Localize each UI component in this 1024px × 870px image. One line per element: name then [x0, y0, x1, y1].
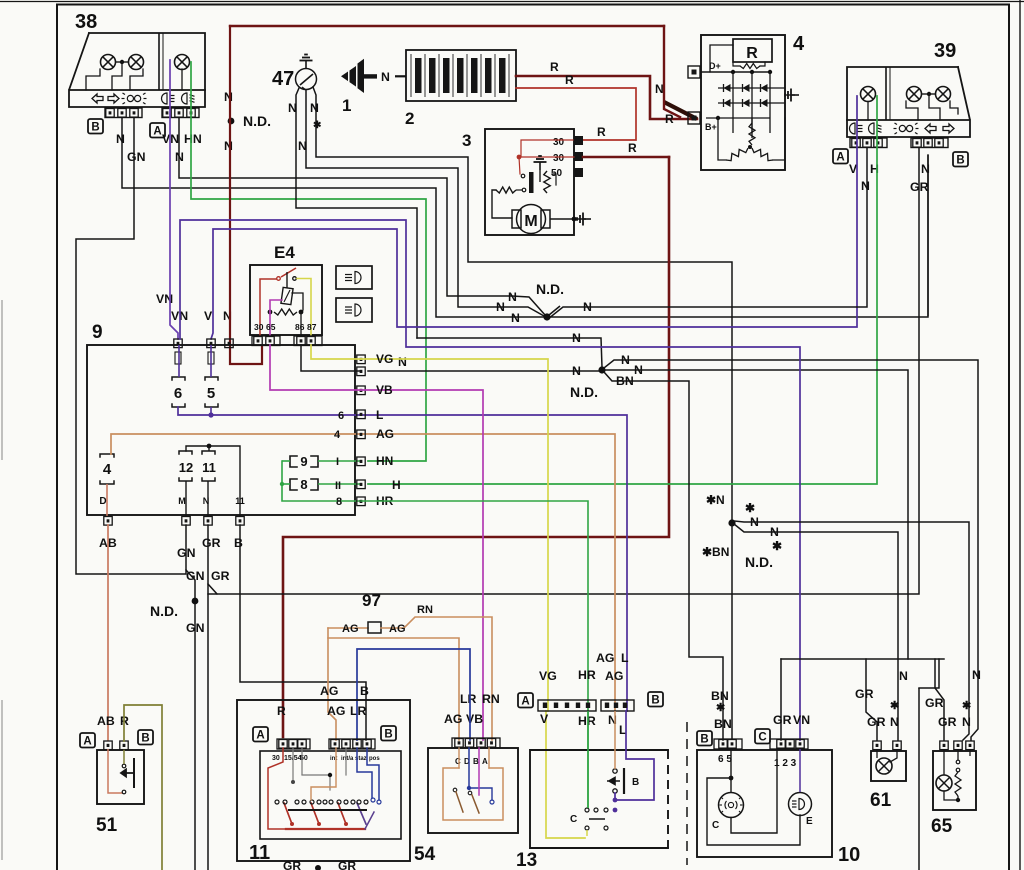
47 N* wire to N.D.3 — [313, 87, 732, 519]
svg-text:2: 2 — [405, 109, 414, 128]
main R feed down to ignition switch — [283, 157, 669, 737]
svg-text:B: B — [956, 155, 964, 167]
svg-text:A: A — [256, 730, 264, 742]
svg-text:B: B — [473, 757, 479, 766]
fuse 5 — [205, 377, 218, 380]
battery 2 — [406, 50, 516, 101]
svg-text:12: 12 — [179, 460, 193, 475]
svg-text:N: N — [496, 300, 505, 314]
wire VN purple from 38-A to fusebox pad — [170, 60, 178, 339]
N wire fusebox to N.D.2 — [368, 370, 599, 372]
svg-text:R: R — [628, 141, 637, 155]
svg-text:8: 8 — [336, 496, 342, 508]
svg-text:GR: GR — [283, 859, 301, 870]
bottom pads of box 9 — [104, 517, 112, 526]
L wire to switch 13 — [361, 415, 627, 711]
green brackets 9 and 8 — [290, 456, 297, 467]
connector A of 38 — [150, 123, 165, 138]
svg-text:E: E — [806, 816, 813, 827]
svg-text:N.D.: N.D. — [150, 603, 178, 619]
svg-text:N: N — [511, 311, 520, 325]
GR wire down — [207, 525, 209, 870]
11 internals — [268, 748, 286, 829]
component 39 front-right light cluster — [847, 67, 958, 120]
svg-text:N: N — [655, 82, 664, 96]
svg-text:LR: LR — [460, 692, 477, 706]
svg-text:61: 61 — [870, 790, 892, 811]
38 bulb wire — [86, 69, 100, 90]
svg-text:V: V — [540, 712, 549, 726]
low beam tell-tale — [336, 298, 372, 322]
R wire battery to starter 30 — [516, 88, 636, 140]
svg-text:N: N — [298, 139, 307, 153]
svg-text:8: 8 — [300, 477, 307, 492]
horn N wire to battery — [395, 75, 406, 77]
svg-text:11: 11 — [202, 460, 216, 475]
GN ground wire — [186, 525, 195, 870]
13 purple internal — [615, 711, 654, 800]
svg-text:VB: VB — [466, 712, 483, 726]
HR wire to switch 13 — [361, 501, 588, 808]
starter motor 3 — [485, 129, 574, 235]
svg-text:30: 30 — [272, 755, 280, 762]
svg-text:3: 3 — [462, 131, 471, 150]
starter motor M — [517, 205, 546, 234]
svg-text:HN: HN — [184, 132, 202, 146]
wire GN from 38-B down to ground bus — [76, 118, 186, 574]
svg-text:L: L — [621, 651, 629, 665]
VB magenta from E4 65 — [270, 345, 361, 390]
E4 magenta 65 wire — [270, 300, 282, 312]
svg-text:13: 13 — [516, 850, 537, 870]
13 switch C — [585, 808, 589, 812]
switch 54 — [428, 748, 518, 833]
L/VN violet from fuse6 to cluster 10 — [180, 220, 800, 740]
BN wire N.D.2 to cluster 10 — [604, 372, 723, 740]
svg-text:N: N — [583, 300, 592, 314]
svg-text:10: 10 — [838, 844, 860, 866]
component 38 front-left light cluster — [89, 33, 205, 90]
svg-text:AG: AG — [444, 712, 462, 726]
svg-text:AG: AG — [376, 427, 394, 441]
node N.D.2 — [598, 366, 605, 373]
N wire to 61 — [734, 524, 898, 740]
fuse box 9 — [87, 345, 355, 515]
47 centre N wire to N.D.1 — [306, 90, 544, 316]
alternator ground — [785, 89, 799, 102]
svg-text:B: B — [651, 695, 659, 707]
svg-text:11: 11 — [249, 842, 270, 864]
svg-text:A: A — [83, 736, 91, 748]
svg-text:N: N — [203, 496, 210, 506]
svg-text:N: N — [861, 179, 870, 193]
svg-text:✱: ✱ — [890, 700, 899, 712]
svg-text:D: D — [99, 496, 106, 507]
svg-text:pos: pos — [369, 756, 380, 762]
47 left N wire — [296, 88, 417, 338]
connector B of 38 — [88, 119, 103, 134]
connector A of 39 — [833, 149, 848, 164]
starter internal red links — [521, 140, 574, 157]
svg-text:N: N — [572, 364, 581, 378]
38 icon strip: turn arrows — [92, 94, 103, 103]
svg-text:N: N — [770, 525, 779, 539]
VG wire to switch 13 — [361, 359, 548, 711]
solenoid plate and spring — [529, 172, 534, 193]
page frame top edge — [0, 1, 1024, 3]
tail lamp 65 — [933, 751, 976, 810]
switch 51 — [97, 750, 144, 804]
svg-text:11: 11 — [235, 496, 245, 506]
svg-text:87: 87 — [307, 322, 317, 332]
39 icon: side marker )00( — [894, 123, 919, 134]
svg-text:A: A — [521, 696, 529, 708]
V wire 39 to fusebox — [211, 96, 857, 339]
svg-text:30: 30 — [254, 322, 264, 332]
svg-text:6: 6 — [338, 410, 344, 422]
svg-text:A: A — [153, 126, 161, 138]
wire N from 38-B to 39-B (y317 bus through N.D.1) — [122, 118, 928, 317]
svg-text:C: C — [712, 820, 719, 831]
svg-text:N: N — [572, 331, 581, 345]
GR bus from 39-B — [208, 148, 919, 594]
svg-text:✱: ✱ — [962, 700, 971, 712]
svg-text:B: B — [632, 777, 639, 788]
wire HN green from 38-A to fusebox HN — [191, 62, 426, 461]
VG inside 13 — [546, 711, 585, 838]
svg-text:N: N — [899, 669, 908, 683]
N wire 39-A to N.D.1 — [548, 148, 867, 319]
51 switch arrow — [133, 758, 135, 788]
svg-text:N: N — [962, 715, 971, 729]
svg-text:B: B — [234, 536, 243, 550]
svg-text:6 5: 6 5 — [718, 754, 732, 765]
svg-text:AG: AG — [389, 623, 406, 635]
svg-text:4: 4 — [334, 429, 341, 441]
svg-text:✱N: ✱N — [706, 493, 725, 507]
svg-text:97: 97 — [362, 591, 381, 610]
connector B of 39 — [953, 152, 968, 167]
svg-text:N: N — [621, 353, 630, 367]
svg-text:R: R — [597, 125, 606, 139]
svg-text:R: R — [277, 704, 286, 718]
relay E4 — [250, 265, 322, 335]
39 icons: headlights — [850, 123, 863, 134]
N wire N.D.2 to lamp 65 — [604, 360, 978, 740]
top pads of box 9 — [174, 339, 182, 348]
svg-text:6: 6 — [174, 385, 182, 402]
svg-text:GR: GR — [338, 859, 356, 870]
node N.D. on dark red feed — [228, 118, 235, 125]
N feed into N.D.2 — [417, 338, 602, 367]
svg-text:B+: B+ — [705, 122, 717, 132]
dark red top feed line — [230, 25, 664, 27]
E4 coil resistor — [274, 309, 297, 315]
instrument cluster 10 — [697, 750, 832, 857]
38 connector pad rows — [105, 108, 142, 118]
svg-text:38: 38 — [75, 11, 97, 33]
svg-text:VG: VG — [539, 669, 557, 683]
VB wire to switch 54 — [361, 390, 483, 740]
svg-text:RN: RN — [482, 692, 500, 706]
svg-text:I: I — [336, 456, 339, 468]
svg-text:R: R — [746, 45, 758, 62]
svg-text:C: C — [758, 732, 766, 744]
svg-text:VB: VB — [376, 383, 393, 397]
svg-text:GR: GR — [867, 715, 886, 729]
AB wire to 51 — [107, 525, 109, 740]
svg-text:N: N — [398, 355, 407, 369]
svg-text:✱BN: ✱BN — [702, 545, 729, 559]
alternator stator windings — [751, 118, 753, 138]
svg-text:AB: AB — [97, 714, 115, 728]
starter series resistor — [496, 187, 516, 193]
node N.D.4 — [192, 598, 199, 605]
fuses 12 and 11 — [179, 451, 192, 454]
E4 connector pads — [252, 336, 280, 346]
svg-text:N: N — [381, 70, 390, 84]
svg-text:B: B — [141, 733, 149, 745]
GR exit bottom — [918, 688, 920, 870]
svg-text:✱: ✱ — [745, 501, 755, 515]
right edge pads of box 9 — [357, 355, 365, 364]
svg-text:4: 4 — [103, 461, 112, 478]
svg-text:N.D.: N.D. — [570, 384, 598, 400]
svg-text:D+: D+ — [709, 61, 721, 71]
R feed down to relay E4 pin 30 — [230, 26, 262, 364]
svg-text:9: 9 — [300, 454, 307, 469]
RN wire to 54 — [381, 617, 492, 740]
13 connector A — [538, 700, 596, 711]
10 low beam lamp E — [789, 793, 812, 816]
svg-text:HN: HN — [376, 454, 393, 468]
svg-text:VN: VN — [793, 713, 810, 727]
E4 coil — [281, 287, 293, 304]
AG wire to 11 — [328, 628, 336, 740]
svg-text:50: 50 — [300, 755, 308, 762]
svg-text:V: V — [204, 309, 213, 323]
svg-text:B: B — [91, 122, 99, 134]
svg-text:B: B — [360, 684, 369, 698]
svg-text:1: 1 — [342, 96, 351, 115]
svg-text:LR: LR — [350, 704, 367, 718]
13 connector B — [601, 700, 634, 711]
horn 1 — [341, 72, 348, 82]
node N.D.3 — [728, 519, 735, 526]
svg-text:B: B — [700, 734, 708, 746]
svg-text:BN: BN — [616, 374, 634, 388]
38 icon: side marker )00( — [122, 93, 147, 104]
svg-text:N: N — [288, 101, 297, 115]
GR to cluster 10 — [780, 659, 782, 740]
outer right scan edge — [1019, 0, 1021, 870]
GR branch line — [781, 658, 944, 660]
svg-text:GN: GN — [127, 150, 146, 164]
E4 yellow 87 wire — [297, 279, 311, 336]
svg-text:R: R — [550, 60, 559, 74]
wire N from 38-A to N.D.1 — [179, 118, 545, 315]
AG wire to 54 — [328, 638, 459, 740]
N line from E4 86 — [301, 345, 361, 371]
39 arrows — [925, 124, 936, 133]
svg-text:30: 30 — [553, 153, 565, 164]
ground above 47 — [300, 55, 313, 69]
ignition switch 11 — [237, 700, 410, 861]
svg-text:M: M — [178, 496, 186, 506]
svg-text:GN: GN — [186, 621, 205, 635]
svg-text:51: 51 — [96, 815, 118, 836]
svg-text:GR: GR — [202, 536, 221, 550]
starter ground — [577, 213, 591, 226]
dashed separators right of 13 — [686, 722, 688, 865]
svg-text:H: H — [392, 478, 401, 492]
svg-text:M: M — [524, 213, 537, 230]
svg-text:E4: E4 — [274, 243, 295, 262]
svg-text:AG: AG — [327, 704, 345, 718]
svg-text:✱: ✱ — [772, 539, 782, 553]
svg-text:N: N — [224, 139, 233, 153]
node N.D.1 — [543, 313, 550, 320]
39 bulbs — [861, 87, 876, 102]
svg-text:N: N — [310, 101, 319, 115]
LR wire — [357, 649, 470, 740]
R wire from 51-B — [124, 705, 162, 870]
light switch 13 — [530, 750, 668, 848]
svg-text:N: N — [972, 668, 981, 682]
GR to lamp 61 — [866, 659, 877, 740]
svg-text:N: N — [224, 90, 233, 104]
svg-text:N.D.: N.D. — [536, 281, 564, 297]
svg-text:N: N — [116, 132, 125, 146]
svg-text:II: II — [335, 480, 341, 492]
svg-text:L: L — [376, 408, 383, 422]
component 47 oil pressure sender — [296, 69, 317, 90]
svg-text:AG: AG — [596, 651, 614, 665]
svg-text:GR: GR — [211, 569, 230, 583]
13 switch B — [613, 769, 617, 773]
svg-text:A: A — [482, 757, 488, 766]
svg-text:B: B — [384, 729, 392, 741]
fuse 4 and AG — [100, 454, 114, 457]
licence plate lamp 61 — [871, 751, 906, 781]
small fuse holders below pads — [175, 352, 181, 364]
svg-text:AG: AG — [342, 623, 359, 635]
svg-text:5: 5 — [207, 385, 215, 402]
svg-text:39: 39 — [934, 40, 956, 62]
AG wire to switch 13 — [361, 434, 615, 711]
39 wire N right — [927, 155, 929, 316]
svg-text:HR: HR — [578, 714, 596, 728]
alternator 4 — [701, 35, 785, 170]
svg-text:54: 54 — [414, 844, 436, 865]
10 high beam lamp C — [719, 793, 744, 818]
svg-text:C: C — [455, 757, 461, 766]
svg-text:N: N — [890, 715, 899, 729]
svg-text:47: 47 — [272, 68, 294, 90]
39 connector pads — [850, 138, 887, 148]
svg-text:HR: HR — [578, 668, 596, 682]
svg-text:GR: GR — [938, 715, 957, 729]
38 bulbs — [101, 55, 116, 70]
VG yellow from E4 87 through pad — [311, 345, 361, 359]
svg-text:4: 4 — [793, 33, 805, 55]
left scan artifact — [1, 300, 3, 460]
svg-text:N.D.: N.D. — [243, 113, 271, 129]
svg-text:86: 86 — [295, 322, 305, 332]
svg-text:A: A — [836, 152, 844, 164]
violet below fuse 6 — [178, 407, 361, 415]
GR to lamp 65 — [935, 659, 944, 740]
svg-text:AG: AG — [320, 684, 338, 698]
svg-text:9: 9 — [92, 322, 103, 343]
H wire 39 to fusebox — [368, 96, 877, 484]
N wire N.D.2 east to lamp feed line — [604, 370, 908, 659]
svg-text:R: R — [565, 73, 574, 87]
svg-text:65: 65 — [931, 816, 953, 837]
svg-text:GR: GR — [925, 696, 944, 710]
bold B+ junction — [664, 102, 697, 119]
svg-text:30: 30 — [553, 137, 565, 148]
10 internals — [729, 776, 734, 781]
svg-text:N.D.: N.D. — [745, 554, 773, 570]
R feed from starter 30 — [583, 156, 669, 159]
alternator diode bridge — [732, 72, 734, 133]
svg-text:AG: AG — [605, 669, 623, 683]
svg-text:BN: BN — [714, 717, 732, 731]
svg-text:BN: BN — [711, 689, 729, 703]
high beam tell-tale — [336, 266, 372, 289]
svg-text:GR: GR — [773, 713, 792, 727]
svg-text:65: 65 — [266, 322, 276, 332]
svg-text:VG: VG — [376, 352, 393, 366]
svg-text:RN: RN — [417, 604, 433, 616]
R wire battery to alternator B+ — [516, 76, 697, 119]
svg-text:GR: GR — [855, 687, 874, 701]
svg-text:✱: ✱ — [716, 702, 725, 714]
54 internals — [458, 748, 460, 768]
svg-text:N: N — [634, 363, 643, 377]
B wire to 11 — [240, 525, 366, 740]
38 icon: headlights — [162, 93, 175, 104]
svg-text:N: N — [508, 290, 517, 304]
fuse 6 — [172, 377, 185, 380]
N wire to 65 — [734, 521, 969, 740]
AG wire from fuse 4 — [111, 434, 361, 454]
svg-text:C: C — [570, 814, 577, 825]
svg-text:int/a: int/a — [341, 756, 354, 762]
E4 internal switch — [260, 279, 276, 335]
svg-text:✱: ✱ — [313, 120, 322, 131]
svg-text:N: N — [750, 515, 759, 529]
